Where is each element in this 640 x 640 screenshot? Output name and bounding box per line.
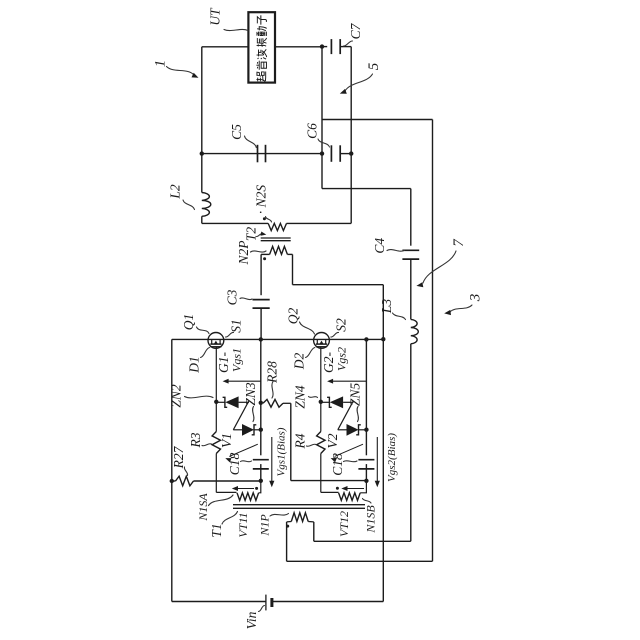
ultrasonic transducer box UT (超音波振動子)	[248, 12, 275, 82]
wire vertical C7 branch down to N2S wire	[350, 47, 352, 224]
inductor L3	[411, 319, 419, 343]
label ZN4	[293, 385, 308, 409]
wire N2P left	[261, 253, 270, 255]
leader arrow for 5	[340, 74, 373, 94]
label Vgs1(Bias)	[275, 427, 287, 476]
wire C3 to S1 node	[260, 308, 262, 339]
resistor R3	[212, 432, 220, 454]
measurement arrow VT11	[232, 486, 254, 491]
gate rail below R3	[215, 454, 217, 493]
svg-text:L2: L2	[168, 184, 183, 200]
node ZN3 on source rail	[259, 428, 263, 432]
wire ZN5 cathode to rail	[359, 429, 367, 431]
label VT12	[337, 511, 351, 537]
leader C4	[387, 250, 405, 252]
wire L2 corner to N2S	[202, 222, 268, 224]
label C18 (Q2)	[330, 453, 345, 476]
svg-text:D2: D2	[292, 353, 307, 371]
leader S1	[226, 332, 234, 337]
wire ZN4 cathode	[321, 401, 330, 403]
svg-text:S1: S1	[228, 319, 243, 333]
battery Vin long plate	[265, 595, 267, 611]
svg-text:C3: C3	[225, 289, 240, 305]
wire top from left rail to UT box	[202, 46, 249, 48]
wire ZN3 anode	[233, 429, 242, 431]
leader N1P	[270, 514, 289, 517]
capacitor C18 (Q2)	[358, 460, 374, 469]
node S2 / source-network junction	[364, 337, 368, 341]
label N1P	[258, 514, 272, 537]
zener diode ZN3 (points right)	[242, 424, 254, 436]
svg-text:N1SB: N1SB	[363, 505, 377, 534]
label 7	[451, 238, 467, 247]
leader C3	[240, 298, 252, 300]
wire R27 from left rail	[172, 480, 176, 482]
svg-text:R4: R4	[293, 433, 308, 449]
R28 branch to Q2 source node	[291, 480, 367, 482]
wire C7 node to capacitor C7	[322, 46, 327, 48]
leader C18 (Q1)	[241, 461, 252, 462]
label C3	[225, 289, 240, 305]
label ZN3	[243, 382, 258, 406]
series diagonal ZN2-ZN3	[233, 401, 248, 430]
leader arrow for 3	[444, 305, 472, 315]
label V1	[219, 433, 234, 448]
capacitor C4	[402, 250, 419, 259]
battery rail vertical	[382, 285, 384, 602]
svg-text:Q1: Q1	[181, 314, 196, 331]
wire R28 right	[283, 402, 291, 404]
svg-text:Vgs1: Vgs1	[230, 348, 244, 372]
measurement arrow Vgs1	[223, 379, 261, 384]
wire C5 C6 horizontal	[202, 153, 322, 155]
wire N1P left terminal up	[286, 522, 288, 561]
label G2	[321, 352, 336, 373]
left rail (Q1 drain to battery)	[171, 339, 173, 601]
wire N2P to battery rail	[293, 284, 384, 286]
measurement arrow Vgs2	[327, 379, 366, 384]
bottom wire battery left	[172, 601, 266, 603]
leader N2S	[266, 217, 272, 223]
outer right rail down	[432, 120, 434, 562]
leader Q1	[197, 327, 210, 334]
winding N1P	[291, 513, 308, 522]
resistor R4	[317, 432, 325, 454]
svg-text:ZN2: ZN2	[169, 384, 184, 408]
svg-text:R28: R28	[265, 361, 280, 384]
measurement arrow VT12	[341, 486, 364, 491]
transformer T2 secondary winding N2S	[268, 223, 286, 230]
label N2P	[236, 240, 251, 265]
svg-text:VT12: VT12	[337, 511, 351, 537]
label S1	[228, 319, 243, 333]
svg-text:C7: C7	[348, 22, 363, 39]
label C4	[372, 238, 387, 254]
zener diode ZN5 (points right)	[347, 424, 359, 436]
wire N1P right riser	[313, 522, 315, 541]
gate lead Q2	[320, 347, 322, 402]
label Q2	[286, 308, 301, 325]
capacitor C18 (Q1)	[253, 460, 269, 469]
inner right rail upper segment	[410, 189, 412, 246]
label UT	[208, 7, 223, 26]
measurement arrow V1	[225, 444, 257, 462]
zener ZN3 cathode bar	[252, 425, 257, 435]
label Q1	[181, 314, 196, 331]
node C6 left	[320, 151, 324, 155]
leader C7	[344, 41, 353, 46]
label L3	[379, 299, 394, 315]
svg-text:R27: R27	[171, 445, 186, 469]
transformer T1 core	[233, 505, 365, 509]
wire ZN2 cathode	[216, 401, 225, 403]
zener diode ZN2 (points left)	[225, 396, 238, 408]
label N1SB	[363, 505, 377, 534]
zener ZN5 cathode bar	[356, 425, 361, 435]
zener diode ZN4 (points left)	[330, 396, 343, 408]
leader N1SA	[209, 495, 234, 506]
svg-text:ZN4: ZN4	[293, 385, 308, 409]
label G1	[216, 352, 231, 373]
label Vgs1	[230, 348, 244, 372]
wire UT box to C7 node	[275, 46, 322, 48]
label V2	[325, 433, 340, 448]
svg-text:ZN5: ZN5	[348, 383, 363, 407]
polarity dot N2S	[263, 217, 266, 220]
leader ZN2	[185, 396, 214, 398]
wire horizontal bypass to outer right rail	[322, 119, 433, 121]
inner rail below L3	[410, 344, 412, 542]
leader C18 (Q2)	[344, 461, 358, 462]
wire C7 to corner	[340, 46, 351, 48]
zener ZN2 cathode bar	[223, 397, 228, 407]
wire R27 to Q1 source node	[194, 480, 261, 482]
main drain-source wire (Q1 drain to S2 node)	[172, 338, 383, 340]
leader R4	[307, 444, 317, 446]
label ZN2	[169, 384, 184, 408]
leader ZN5	[357, 407, 358, 422]
label R27	[171, 445, 186, 469]
leader arrow for 1	[167, 67, 199, 78]
svg-text:N2P: N2P	[236, 240, 251, 265]
label 3	[467, 294, 483, 303]
wire N2P right	[287, 253, 292, 255]
bottom wire battery right	[272, 601, 383, 603]
svg-text:C6: C6	[305, 123, 320, 139]
node S1 / C3 junction	[259, 337, 263, 341]
label C18 (Q1)	[227, 453, 242, 476]
wire ZN3 cathode to rail	[254, 429, 261, 431]
svg-text:C5: C5	[229, 124, 244, 140]
polarity dot N2P	[263, 257, 266, 260]
transistor Q2 (MOSFET)	[314, 333, 330, 349]
svg-text:C18: C18	[330, 453, 345, 476]
left upper rail top segment	[201, 47, 203, 193]
leader R27	[184, 467, 187, 476]
svg-text:N1SA: N1SA	[196, 493, 210, 522]
gate rail corner to N1SA	[216, 491, 236, 493]
measurement arrow Vgs2(Bias)	[375, 437, 380, 487]
gate lead below ZN2 node	[215, 402, 217, 432]
svg-text:Q2: Q2	[286, 308, 301, 325]
winding N1SB	[339, 493, 361, 501]
gate rail below R4	[320, 454, 322, 493]
series diagonal ZN4-ZN5	[338, 401, 353, 430]
polarity dot N1SB	[336, 487, 339, 490]
leader D1	[201, 348, 210, 358]
N1SA right lead	[259, 481, 261, 493]
label 1	[153, 60, 169, 68]
outer rail bottom wire to N1P left	[287, 560, 433, 562]
label C6	[305, 123, 320, 139]
capacitor C3	[253, 300, 270, 309]
svg-text:C4: C4	[372, 238, 387, 254]
leader Q2	[300, 322, 315, 334]
svg-text:VT11: VT11	[236, 512, 250, 537]
node left rail / C5 wire	[200, 151, 204, 155]
svg-text:S2: S2	[333, 318, 348, 332]
Q2 source rail lower	[365, 464, 367, 481]
wire N2P right riser down	[292, 254, 294, 284]
leader L3	[393, 313, 406, 320]
svg-text:V2: V2	[325, 433, 340, 448]
node junction UT/C7	[320, 44, 324, 48]
svg-text:T2: T2	[244, 227, 259, 242]
node R27/C18/N1SA junction	[259, 479, 263, 483]
capacitor C6	[331, 145, 340, 162]
zener ZN4 cathode bar	[327, 397, 332, 407]
label R28	[265, 361, 280, 384]
measurement arrow V2	[331, 444, 363, 462]
wire ZN2 anode	[239, 401, 249, 403]
wire horizontal to inner right rail	[322, 188, 411, 190]
svg-text:ZN3: ZN3	[243, 382, 258, 406]
node gate/ZN4	[319, 400, 323, 404]
node R27 left rail	[170, 479, 174, 483]
label S2	[333, 318, 348, 332]
capacitor C5	[258, 145, 266, 163]
leader ZN3	[253, 407, 254, 422]
gate lead Q1	[215, 347, 217, 402]
node R28-wire/C18/N1SB junction	[364, 479, 368, 483]
label VT11	[236, 512, 250, 537]
svg-text:Vgs2: Vgs2	[335, 347, 349, 371]
wire C3 from N2P	[260, 254, 262, 295]
label C7	[348, 22, 363, 39]
Q1 source rail	[260, 339, 262, 455]
wire C6 right to node	[340, 153, 351, 155]
leader N1SB	[363, 499, 372, 504]
svg-text:· N2S: · N2S	[254, 185, 269, 215]
label N1SA	[196, 493, 210, 522]
svg-text:5: 5	[366, 62, 382, 70]
wire C6-node down to inner branch corner	[321, 154, 323, 189]
winding N1SA	[237, 493, 259, 501]
left upper rail below L2	[201, 216, 203, 223]
leader UT	[224, 29, 248, 30]
label Vgs2(Bias)	[386, 433, 398, 482]
svg-text:T1: T1	[209, 523, 224, 537]
svg-text:Vin: Vin	[244, 611, 259, 629]
label 5	[366, 62, 382, 70]
label C5	[229, 124, 244, 140]
svg-text:3: 3	[467, 294, 483, 303]
transistor Q1 (MOSFET)	[208, 333, 224, 349]
resistor R28	[263, 399, 283, 407]
svg-text:UT: UT	[208, 7, 223, 26]
R28 branch down	[290, 403, 292, 480]
node ZN2/R28 on source rail	[259, 401, 263, 405]
svg-text:V1: V1	[219, 433, 234, 448]
label N2S	[254, 185, 269, 215]
svg-text:D1: D1	[187, 356, 202, 374]
leader arrow T2	[257, 232, 267, 237]
label D2	[292, 353, 307, 371]
Q1 source rail lower	[260, 464, 262, 481]
svg-text:L3: L3	[379, 299, 394, 315]
resistor R27	[176, 476, 194, 486]
transformer T2 core	[261, 238, 291, 241]
wire N2S to right riser	[287, 222, 352, 224]
svg-text:R3: R3	[188, 432, 203, 448]
leader T1	[222, 512, 238, 525]
node S2 / battery rail junction	[381, 337, 385, 341]
node C6 right / C7 branch	[349, 151, 353, 155]
gate lead below ZN4 node	[320, 402, 322, 432]
wire ZN4 anode	[343, 401, 353, 403]
leader N2P	[251, 251, 267, 252]
battery Vin short plate	[270, 598, 273, 607]
polarity dot N1SA	[255, 487, 258, 490]
N1P left lead	[287, 521, 292, 523]
leader C6	[318, 139, 330, 147]
leader ZN4	[309, 397, 318, 398]
Q2 source rail	[365, 339, 367, 455]
leader Vin	[259, 606, 265, 612]
svg-text:Vgs1(Bias): Vgs1(Bias)	[275, 427, 287, 476]
label T2	[244, 227, 259, 242]
wire ZN5 anode	[338, 429, 347, 431]
leader C5	[245, 136, 257, 148]
gate rail corner to N1SB	[321, 491, 339, 493]
measurement arrow Vgs1(Bias)	[269, 437, 274, 487]
leader arrow for 7	[416, 251, 456, 287]
node ZN5 on source rail	[364, 428, 368, 432]
inner rail bottom corner to N1P right riser	[314, 540, 411, 542]
node gate/ZN2	[214, 400, 218, 404]
capacitor C7	[331, 39, 340, 54]
label R4	[293, 433, 308, 449]
label T1	[209, 523, 224, 537]
leader S2	[331, 332, 339, 337]
N1P right lead	[308, 521, 314, 523]
label Vgs2	[335, 347, 349, 371]
label R3	[188, 432, 203, 448]
label ZN5	[348, 383, 363, 407]
label Vin	[244, 611, 259, 629]
N1SB right lead	[360, 481, 366, 493]
inner rail between C4 and L3	[410, 259, 412, 319]
wire vertical from C7 node down to C6 node	[321, 47, 323, 154]
polarity dot N1P	[286, 525, 289, 528]
svg-text:Vgs2(Bias): Vgs2(Bias)	[386, 433, 398, 482]
leader R28	[272, 382, 273, 399]
transformer T2 primary winding N2P	[270, 246, 288, 254]
svg-text:N1P: N1P	[258, 514, 272, 537]
inductor L2	[202, 193, 211, 217]
leader D2	[306, 348, 315, 358]
leader R3	[202, 444, 212, 446]
label L2	[168, 184, 183, 200]
label D1	[187, 356, 202, 374]
leader L2	[183, 200, 195, 210]
svg-text:C18: C18	[227, 453, 242, 476]
